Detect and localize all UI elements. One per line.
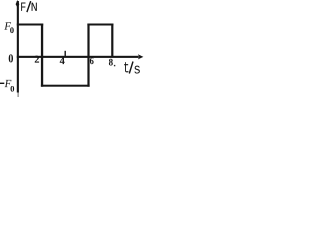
tick mark t=4 [65, 51, 66, 58]
axis label t/s [124, 62, 128, 72]
tick label 8 [109, 59, 113, 66]
wire: bottom level segment (F = -F0, t 2-6) [41, 85, 90, 87]
wire: top level segment 2 (F = +F0, t 6-8) [87, 24, 113, 26]
tick label 4 [60, 57, 65, 64]
y-axis (F axis) [17, 1, 19, 93]
wire: rising edge at t=6 [87, 24, 89, 87]
value label F0 [4, 22, 11, 29]
x-axis arrowhead [138, 54, 144, 59]
y-axis arrowhead [16, 0, 20, 8]
value label -F0 [0, 83, 4, 84]
axis label F/N [21, 2, 25, 10]
wire: top level segment 1 (F = +F0, t 0-2) [17, 24, 43, 26]
x-axis (t axis) [17, 56, 139, 58]
speckle dot after 8 [114, 65, 115, 66]
tick label 2 [35, 56, 39, 63]
wire: falling edge at t=2 [41, 24, 43, 87]
origin label 0 [9, 54, 13, 62]
wire: falling edge at t=8 [111, 24, 113, 57]
y-axis fade tail [17, 93, 19, 98]
tick label 6 [90, 57, 94, 64]
